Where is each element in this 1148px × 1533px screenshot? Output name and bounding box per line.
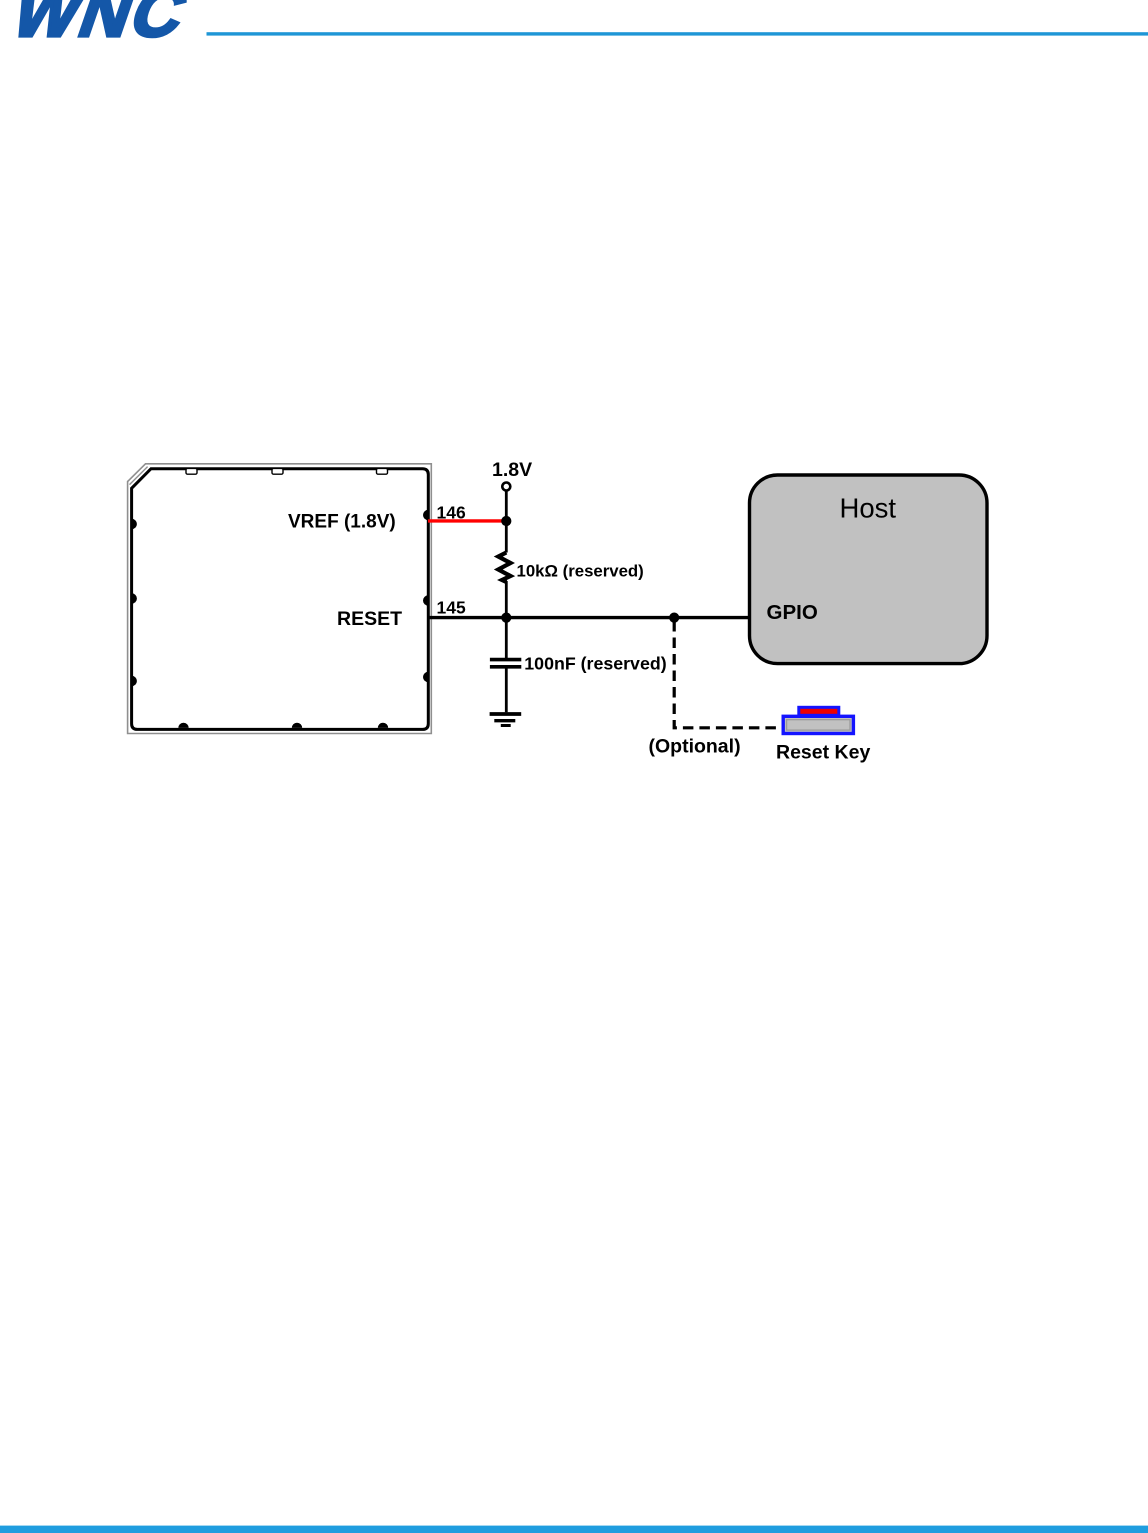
reset key switch — [783, 707, 853, 733]
svg-text:(Optional): (Optional) — [649, 736, 741, 758]
module right edge pads — [423, 510, 428, 682]
host block — [750, 475, 988, 664]
module bottom edge pads — [178, 723, 388, 728]
optional dashed wire — [674, 621, 782, 728]
module top edge pads — [186, 468, 388, 474]
svg-text:RESET: RESET — [337, 608, 402, 630]
svg-text:145: 145 — [437, 597, 466, 617]
svg-text:Reset Key: Reset Key — [776, 741, 870, 763]
supply terminal 1.8V — [502, 483, 510, 491]
wire pin 146 VREF (red) — [428, 519, 506, 522]
module outline — [128, 464, 432, 734]
footer bar — [0, 1526, 1148, 1533]
svg-text:GPIO: GPIO — [767, 601, 818, 624]
node B junction — [501, 613, 511, 623]
node A junction — [501, 516, 511, 526]
wire supply to node A — [505, 491, 508, 521]
node C junction — [669, 613, 679, 623]
wire RESET net — [428, 616, 751, 619]
module left edge pads — [132, 519, 137, 686]
svg-text:VREF (1.8V): VREF (1.8V) — [288, 512, 396, 533]
svg-text:100nF (reserved): 100nF (reserved) — [524, 654, 666, 674]
ground — [490, 714, 522, 726]
svg-text:Host: Host — [840, 493, 897, 524]
svg-text:10kΩ (reserved): 10kΩ (reserved) — [517, 562, 644, 581]
svg-text:WNC: WNC — [3, 0, 199, 51]
svg-text:1.8V: 1.8V — [492, 459, 532, 481]
header rule — [207, 32, 1148, 35]
capacitor 100nF — [490, 618, 521, 713]
resistor 10k — [498, 521, 510, 618]
WNC logo — [3, 0, 199, 51]
